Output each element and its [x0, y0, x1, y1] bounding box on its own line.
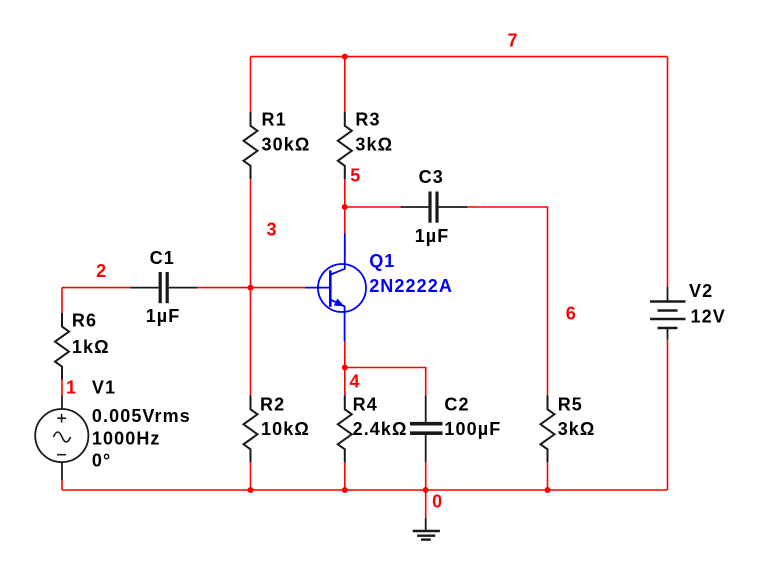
resistor R4	[338, 395, 352, 462]
AC source V1	[35, 396, 88, 481]
svg-text:R3: R3	[355, 110, 380, 130]
svg-text:0.005Vrms: 0.005Vrms	[92, 406, 191, 426]
svg-text:3kΩ: 3kΩ	[558, 419, 596, 439]
svg-text:6: 6	[566, 304, 577, 324]
wire C1 right lead through node 3 to Q1 base	[197, 287, 305, 289]
Q1 emitter arrow	[334, 299, 344, 307]
battery V2	[650, 287, 686, 340]
svg-text:3kΩ: 3kΩ	[355, 134, 393, 154]
junction node 5	[342, 204, 348, 210]
svg-text:1µF: 1µF	[146, 306, 181, 326]
wire R5 bottom to bottom bus	[547, 462, 549, 490]
svg-text:4: 4	[350, 372, 361, 392]
transistor Q1	[305, 234, 366, 342]
svg-text:0°: 0°	[92, 450, 111, 470]
capacitor C3	[401, 192, 468, 223]
svg-text:Q1: Q1	[369, 251, 395, 271]
svg-text:0: 0	[432, 492, 443, 512]
junction top bus / R3 column	[342, 54, 348, 60]
junction bottom bus / ground node 0	[423, 487, 429, 493]
wire node 5 to C3 left lead	[345, 206, 401, 208]
wire V1 minus terminal to bottom bus	[61, 480, 63, 490]
svg-text:1000Hz: 1000Hz	[92, 429, 161, 449]
resistor R3	[338, 112, 352, 179]
svg-text:V2: V2	[689, 281, 713, 301]
svg-text:1µF: 1µF	[415, 226, 450, 246]
wire R3 bottom to node 5	[344, 179, 346, 207]
wire node 4 row to C2 top lead	[345, 368, 426, 396]
wire node 2 from V1 branch to C1 left lead	[62, 287, 130, 289]
wire C3 right lead to node 6 column down to R5 top	[467, 207, 547, 395]
svg-text:R2: R2	[260, 395, 285, 415]
wire node 4 down to R4 top lead	[344, 368, 346, 396]
wire V2 column from top bus down to battery positive	[667, 57, 669, 287]
junction node 4	[342, 365, 348, 371]
junction node 3	[248, 285, 254, 291]
resistor R6	[55, 313, 69, 380]
wire top bus to R1 top lead	[250, 57, 252, 112]
svg-text:1kΩ: 1kΩ	[72, 337, 110, 357]
svg-text:100µF: 100µF	[444, 419, 501, 439]
svg-text:R5: R5	[558, 395, 583, 415]
svg-text:7: 7	[508, 30, 519, 50]
svg-text:2.4kΩ: 2.4kΩ	[353, 419, 408, 439]
wire R4 bottom to bottom bus	[344, 462, 346, 490]
wire bottom bus to ground stem	[425, 490, 427, 518]
ground	[413, 518, 440, 540]
wire R2 bottom to bottom bus	[250, 462, 252, 490]
svg-text:5: 5	[350, 166, 361, 186]
svg-text:R4: R4	[353, 395, 378, 415]
resistor R1	[244, 112, 258, 179]
wire V2 negative terminal down to bottom bus	[667, 340, 669, 490]
svg-text:30kΩ: 30kΩ	[262, 134, 311, 154]
wire node 1 between R6 bottom and V1 plus terminal	[61, 380, 63, 396]
svg-text:R1: R1	[262, 110, 287, 130]
wire Q1 emitter to node 4	[344, 342, 346, 368]
wire node 3 column R1 bottom to R2 top	[250, 179, 252, 395]
wire top bus node 7	[251, 56, 668, 58]
svg-text:2: 2	[96, 261, 107, 281]
svg-text:C1: C1	[150, 248, 175, 268]
wire C2 bottom to bottom bus	[425, 462, 427, 490]
svg-text:C2: C2	[444, 395, 469, 415]
svg-text:1: 1	[66, 377, 77, 397]
junction bottom bus / R5	[545, 487, 551, 493]
svg-text:2N2222A: 2N2222A	[369, 276, 453, 296]
capacitor C1	[130, 272, 197, 303]
junction bottom bus / R4	[342, 487, 348, 493]
wire node 2 corner down to R6 top lead	[61, 288, 63, 313]
wire node 5 down toward Q1 collector	[344, 207, 346, 234]
capacitor C2	[410, 395, 443, 462]
svg-text:V1: V1	[92, 377, 116, 397]
svg-text:10kΩ: 10kΩ	[261, 419, 310, 439]
junction bottom bus / R2	[248, 487, 254, 493]
svg-text:R6: R6	[72, 311, 97, 331]
svg-text:C3: C3	[419, 167, 444, 187]
svg-text:12V: 12V	[691, 307, 726, 327]
wire bottom bus node 0	[62, 489, 668, 491]
resistor R2	[244, 395, 258, 462]
wire top bus to R3 top lead	[344, 57, 346, 112]
svg-text:3: 3	[267, 220, 278, 240]
resistor R5	[541, 395, 555, 462]
